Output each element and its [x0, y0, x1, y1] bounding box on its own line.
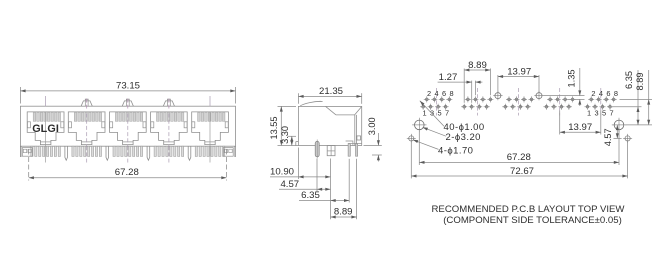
svg-text:5: 5	[602, 108, 606, 117]
svg-text:3: 3	[430, 108, 434, 117]
svg-text:4.57: 4.57	[280, 179, 299, 190]
svg-text:67.28: 67.28	[115, 167, 139, 178]
svg-text:(COMPONENT SIDE TOLERANCE±0.05: (COMPONENT SIDE TOLERANCE±0.05)	[443, 215, 622, 226]
svg-text:7: 7	[445, 108, 449, 117]
svg-text:3: 3	[594, 108, 598, 117]
svg-text:13.55: 13.55	[269, 117, 279, 140]
svg-text:6: 6	[606, 89, 610, 98]
svg-text:1.35: 1.35	[566, 70, 576, 88]
svg-text:4: 4	[434, 89, 438, 98]
svg-text:13.97: 13.97	[568, 122, 592, 133]
svg-text:RECOMMENDED P.C.B LAYOUT TOP V: RECOMMENDED P.C.B LAYOUT TOP VIEW	[432, 204, 626, 215]
svg-text:8.89: 8.89	[334, 207, 353, 218]
svg-text:8: 8	[449, 89, 453, 98]
svg-text:4: 4	[599, 89, 603, 98]
svg-text:10.90: 10.90	[270, 167, 294, 178]
svg-text:1.27: 1.27	[439, 72, 458, 83]
svg-text:2-ϕ3.20: 2-ϕ3.20	[446, 132, 481, 143]
svg-text:2: 2	[591, 89, 595, 98]
svg-text:72.67: 72.67	[510, 166, 534, 177]
svg-text:4.57: 4.57	[603, 128, 613, 146]
svg-text:13.97: 13.97	[507, 66, 531, 77]
svg-text:6.35: 6.35	[624, 71, 634, 89]
svg-text:8: 8	[614, 89, 618, 98]
svg-text:1: 1	[423, 108, 427, 117]
svg-text:2: 2	[427, 89, 431, 98]
svg-text:4-ϕ1.70: 4-ϕ1.70	[438, 145, 473, 156]
svg-text:21.35: 21.35	[319, 86, 343, 97]
svg-text:1: 1	[587, 108, 591, 117]
svg-text:8.89: 8.89	[468, 60, 487, 71]
svg-text:5: 5	[438, 108, 442, 117]
svg-text:GLGI: GLGI	[32, 123, 59, 135]
svg-text:6: 6	[442, 89, 446, 98]
svg-text:3.00: 3.00	[367, 117, 377, 135]
svg-text:3.30: 3.30	[280, 126, 290, 144]
svg-text:7: 7	[609, 108, 613, 117]
svg-text:67.28: 67.28	[507, 152, 531, 163]
svg-text:6.35: 6.35	[301, 190, 320, 201]
svg-text:73.15: 73.15	[116, 81, 140, 92]
svg-text:8.89: 8.89	[635, 73, 645, 91]
